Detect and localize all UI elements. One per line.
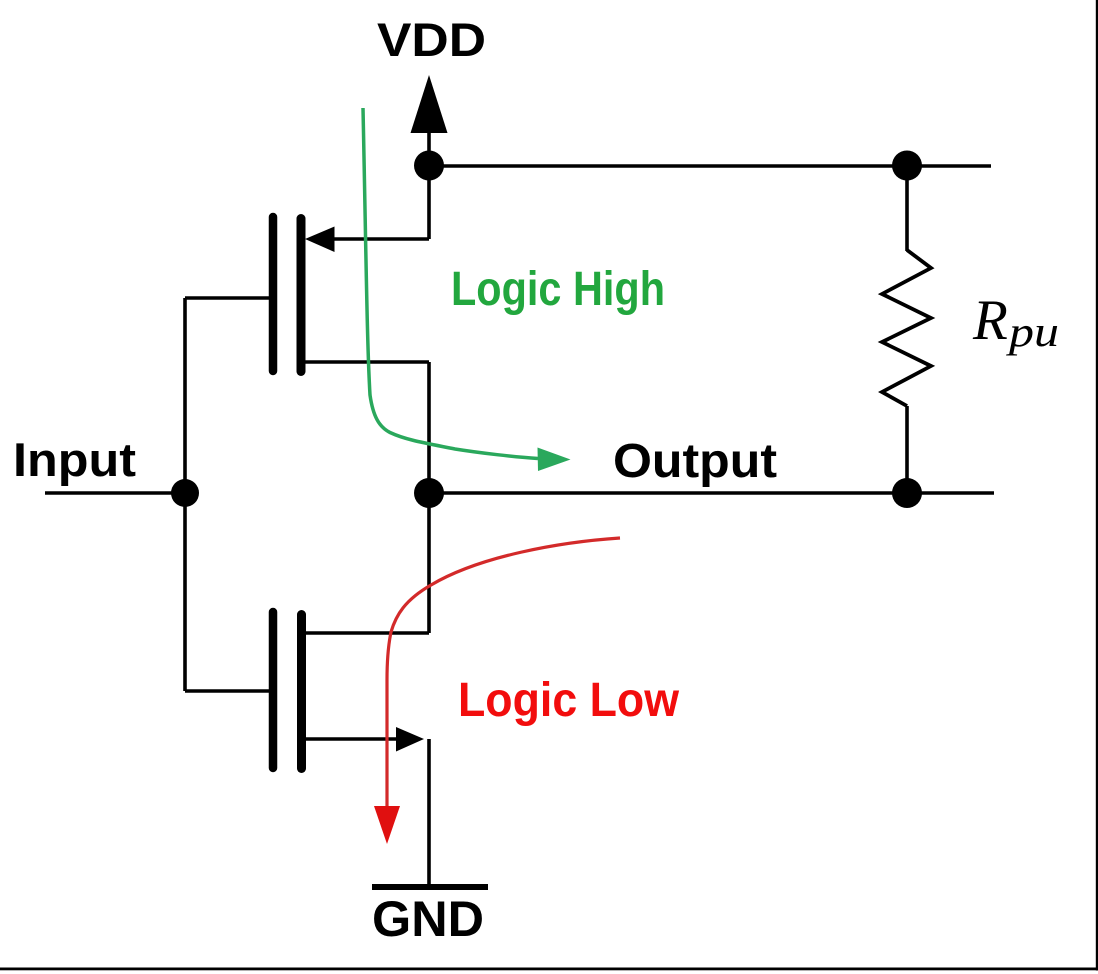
Q1 source wire with arrow [312, 237, 429, 241]
Q1 gate wire [185, 296, 269, 300]
node input junction dot [171, 479, 199, 507]
border frame right edge [1096, 0, 1098, 971]
Q1 drain wire [305, 360, 429, 364]
svg-text:pu: pu [1006, 309, 1059, 356]
svg-text:R: R [972, 289, 1008, 352]
wire Input [45, 491, 185, 495]
wire VDD rail horizontal (node VDD to Rpu top) [429, 164, 991, 168]
Q2 gate bar [269, 612, 278, 768]
wire output node down to Q2 drain [427, 493, 431, 633]
transistor Q1 PMOS [185, 217, 429, 372]
svg-text:Logic Low: Logic Low [458, 674, 680, 727]
Q1 channel bar [297, 219, 306, 372]
border frame bottom edge [0, 968, 1098, 971]
svg-text:Logic High: Logic High [451, 263, 665, 316]
Q2 channel bar [297, 615, 306, 769]
svg-text:Output: Output [613, 435, 777, 488]
wire Q2 source down to GND [427, 739, 431, 885]
Q1 gate bar [269, 217, 278, 371]
Q2 drain wire [306, 631, 429, 635]
VDD power symbol arrow [411, 75, 448, 166]
node output junction dot [414, 478, 444, 508]
wire Output [429, 491, 994, 495]
resistor Rpu [882, 166, 931, 493]
node Rpu top junction dot [892, 151, 922, 181]
node Rpu bottom junction dot [892, 478, 922, 508]
ground symbol [372, 884, 488, 890]
wire gate bus vertical [183, 298, 187, 691]
Q2 source wire with arrow [306, 737, 400, 741]
wire VDD node down to Q1 source [427, 166, 431, 239]
wire Q1 drain to output node [427, 362, 431, 493]
svg-text:VDD: VDD [377, 13, 486, 66]
svg-text:Input: Input [13, 433, 136, 486]
transistor Q2 NMOS [185, 612, 429, 769]
label Rpu [972, 289, 1059, 356]
node VDD junction dot [414, 151, 444, 181]
Q2 gate wire [185, 689, 269, 693]
svg-text:GND: GND [372, 891, 484, 947]
current arrow Logic Low (red) [374, 538, 620, 844]
current arrow Logic High (green) [363, 108, 571, 471]
